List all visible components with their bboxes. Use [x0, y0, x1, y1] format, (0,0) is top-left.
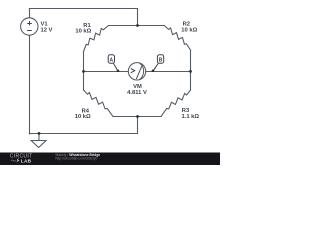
svg-text:4.811 V: 4.811 V — [127, 90, 147, 96]
svg-text:A: A — [109, 57, 113, 63]
svg-text:10 kΩ: 10 kΩ — [75, 114, 91, 120]
svg-text:B: B — [159, 57, 163, 63]
svg-text:1.1 kΩ: 1.1 kΩ — [182, 114, 200, 120]
svg-text:LAB: LAB — [21, 158, 32, 163]
svg-text:10 kΩ: 10 kΩ — [181, 28, 197, 34]
svg-text:10 kΩ: 10 kΩ — [75, 29, 91, 35]
svg-text:12 V: 12 V — [41, 27, 53, 33]
svg-text:http://circuitlab.com/cb8zfyb: http://circuitlab.com/cb8zfyb — [56, 157, 98, 161]
